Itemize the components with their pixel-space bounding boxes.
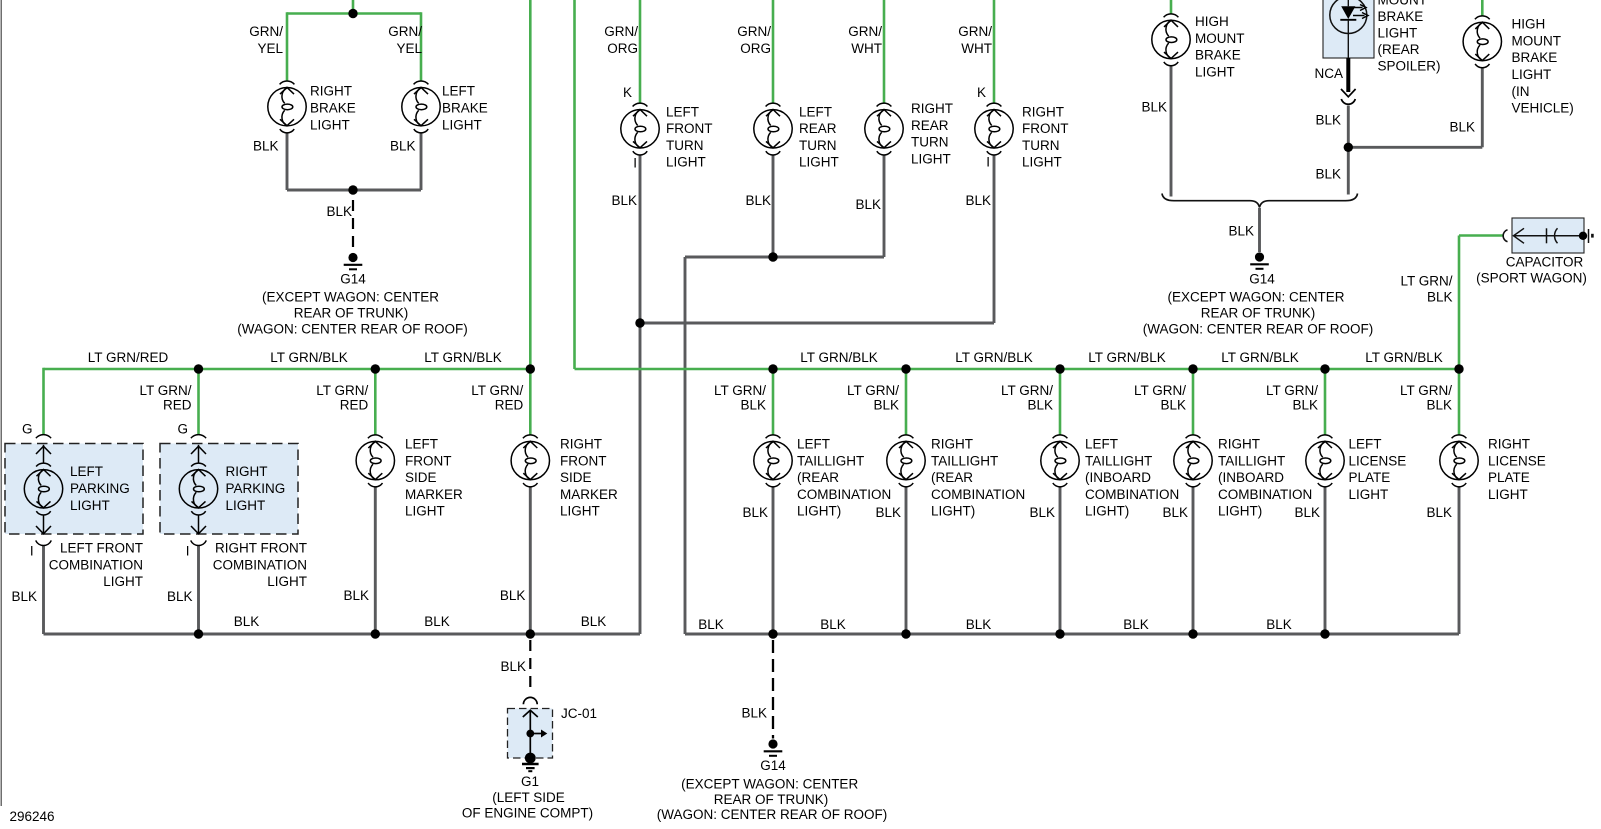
wire BLK left inboard taillight down: [1059, 486, 1062, 634]
svg-text:BLK: BLK: [1294, 505, 1320, 520]
wire BLK rear turns down to bus: [684, 257, 687, 634]
svg-text:LIGHT): LIGHT): [931, 504, 975, 519]
svg-text:LIGHT: LIGHT: [911, 151, 951, 166]
svg-text:G: G: [177, 422, 188, 437]
box JC-01 junction connector: [508, 709, 553, 759]
svg-text:TAILLIGHT: TAILLIGHT: [797, 453, 864, 468]
svg-text:RIGHT: RIGHT: [911, 101, 953, 116]
svg-text:FRONT: FRONT: [560, 453, 607, 468]
svg-text:(EXCEPT WAGON: CENTER: (EXCEPT WAGON: CENTER: [1167, 290, 1344, 305]
svg-text:LIGHT: LIGHT: [1022, 155, 1062, 170]
svg-text:296246: 296246: [10, 809, 55, 824]
LED symbol triangle: [1341, 6, 1355, 19]
svg-text:JC-01: JC-01: [561, 706, 597, 721]
svg-text:SIDE: SIDE: [560, 470, 592, 485]
svg-text:BRAKE: BRAKE: [442, 101, 488, 116]
svg-text:MARKER: MARKER: [405, 487, 463, 502]
wire GRN/ORG left front turn: [639, 0, 642, 103]
svg-text:BRAKE: BRAKE: [1512, 50, 1558, 65]
wire GRN/YEL feed stub: [352, 0, 355, 14]
svg-text:TAILLIGHT: TAILLIGHT: [931, 453, 998, 468]
svg-text:REAR: REAR: [911, 118, 949, 133]
LED circle HIGH MOUNT BRAKE LIGHT (REAR SPOILER): [1330, 0, 1367, 34]
node bus junction left taillight: [768, 364, 777, 373]
node ground bus right inboard: [1188, 629, 1197, 638]
svg-text:CAPACITOR: CAPACITOR: [1506, 255, 1584, 270]
svg-text:BLK: BLK: [820, 617, 846, 632]
node bus junction right marker: [526, 364, 535, 373]
bulb RIGHT TAILLIGHT (REAR COMBINATION LIGHT): [887, 435, 925, 487]
svg-text:LEFT: LEFT: [1085, 437, 1118, 452]
node JC-01 tap: [526, 730, 534, 738]
wire BLK right front turn light down: [993, 155, 996, 323]
LED light arrows: [1352, 5, 1368, 19]
wire LT GRN/BLK capacitor riser: [1458, 236, 1461, 370]
svg-text:BLK: BLK: [234, 614, 260, 629]
wire GRN high mount brake light: [1170, 0, 1173, 14]
wire NCA thick lead: [1346, 58, 1350, 92]
connector cup NCA: [1341, 99, 1355, 104]
svg-text:YEL: YEL: [396, 41, 422, 56]
wire GRN/YEL horizontal: [287, 12, 421, 15]
svg-text:LIGHT): LIGHT): [1085, 504, 1129, 519]
svg-text:LEFT: LEFT: [1349, 437, 1382, 452]
svg-text:LICENSE: LICENSE: [1488, 453, 1546, 468]
box CAPACITOR (SPORT WAGON): [1512, 218, 1584, 253]
svg-text:LIGHT: LIGHT: [1488, 487, 1528, 502]
wire BLK left rear turn light down: [772, 155, 775, 257]
svg-text:(INBOARD: (INBOARD: [1085, 470, 1151, 485]
svg-text:LT GRN/BLK: LT GRN/BLK: [955, 350, 1033, 365]
svg-text:BLK: BLK: [343, 588, 369, 603]
svg-text:MOUNT: MOUNT: [1512, 33, 1562, 48]
svg-text:LIGHT: LIGHT: [442, 117, 482, 132]
wire BLK brake lights join horizontal: [287, 189, 421, 192]
svg-text:BRAKE: BRAKE: [1195, 48, 1241, 63]
svg-text:LIGHT): LIGHT): [797, 504, 841, 519]
svg-text:BRAKE: BRAKE: [1378, 9, 1424, 24]
svg-text:LIGHT: LIGHT: [799, 155, 839, 170]
node bus junction right parking: [194, 364, 203, 373]
svg-text:RIGHT: RIGHT: [1488, 437, 1530, 452]
connector cup capacitor: [1503, 230, 1507, 242]
JC-01 tap arrow: [534, 733, 542, 735]
svg-text:LEFT: LEFT: [70, 464, 103, 479]
svg-text:(SPORT WAGON): (SPORT WAGON): [1476, 271, 1587, 286]
svg-text:LIGHT: LIGHT: [1195, 64, 1235, 79]
wire GRN/YEL right brake light: [286, 12, 289, 81]
wire BLK left brake light down: [420, 133, 423, 190]
node bus junction left license: [1320, 364, 1329, 373]
svg-text:BLK: BLK: [1315, 167, 1341, 182]
svg-text:LT GRN/: LT GRN/: [316, 383, 368, 398]
connector terminals right parking light: [191, 435, 207, 546]
svg-text:LIGHT: LIGHT: [405, 504, 445, 519]
svg-text:BLK: BLK: [1160, 398, 1186, 413]
svg-text:MOUNT: MOUNT: [1378, 0, 1428, 7]
svg-text:G: G: [22, 422, 33, 437]
svg-text:BLK: BLK: [875, 505, 901, 520]
svg-text:BLK: BLK: [855, 197, 881, 212]
svg-text:I: I: [633, 155, 637, 170]
wire BLK rear spoiler light down to junction: [1347, 106, 1350, 195]
svg-text:PLATE: PLATE: [1349, 470, 1391, 485]
svg-text:BLK: BLK: [741, 705, 767, 720]
svg-text:LICENSE: LICENSE: [1349, 453, 1407, 468]
bulb HIGH MOUNT BRAKE LIGHT (IN VEHICLE): [1463, 16, 1501, 68]
node ground bus left marker: [371, 629, 380, 638]
svg-text:K: K: [977, 85, 986, 100]
svg-text:RIGHT: RIGHT: [931, 437, 973, 452]
svg-text:REAR OF TRUNK): REAR OF TRUNK): [294, 306, 409, 321]
svg-text:LT GRN/: LT GRN/: [139, 383, 191, 398]
wire BLK left front side marker down: [374, 486, 377, 634]
svg-text:G14: G14: [760, 758, 786, 773]
wire BLK right rear turn light down: [883, 155, 886, 257]
wire BLK in-vehicle horizontal to junction: [1348, 146, 1482, 149]
node ground bus left inboard: [1055, 629, 1064, 638]
svg-text:BLK: BLK: [965, 193, 991, 208]
svg-text:BLK: BLK: [253, 139, 279, 154]
svg-text:VEHICLE): VEHICLE): [1512, 101, 1574, 116]
svg-text:LEFT: LEFT: [405, 437, 438, 452]
wire BLK left license plate light down: [1324, 486, 1327, 634]
svg-text:BLK: BLK: [698, 617, 724, 632]
svg-text:BLK: BLK: [1266, 617, 1292, 632]
svg-text:RED: RED: [340, 398, 369, 413]
bulb RIGHT LICENSE PLATE LIGHT: [1440, 435, 1478, 487]
svg-text:BLK: BLK: [1292, 398, 1318, 413]
svg-text:LT GRN/BLK: LT GRN/BLK: [1221, 350, 1299, 365]
wire LT GRN/BLK left taillight drop: [772, 369, 775, 435]
svg-text:HIGH: HIGH: [1512, 17, 1546, 32]
wire BLK high mount brake light down to brace: [1170, 65, 1173, 196]
svg-text:LT GRN/: LT GRN/: [1400, 383, 1452, 398]
svg-text:LIGHT: LIGHT: [267, 574, 307, 589]
box RIGHT PARKING LIGHT assembly: [160, 444, 298, 535]
svg-text:BLK: BLK: [424, 614, 450, 629]
wire BLK right taillight down: [905, 486, 908, 634]
svg-text:LIGHT: LIGHT: [226, 498, 266, 513]
svg-text:(REAR: (REAR: [931, 470, 973, 485]
node ground bus right taillight: [901, 629, 910, 638]
wire LT GRN/RED right parking drop: [197, 369, 200, 435]
wire LT GRN/BLK capacitor horizontal: [1459, 234, 1504, 237]
svg-text:TAILLIGHT: TAILLIGHT: [1218, 453, 1285, 468]
bulb RIGHT TAILLIGHT (INBOARD COMBINATION LIGHT): [1174, 435, 1212, 487]
node ground bus right marker: [526, 629, 535, 638]
svg-text:BLK: BLK: [873, 398, 899, 413]
box HIGH MOUNT BRAKE LIGHT (REAR SPOILER): [1323, 0, 1374, 58]
svg-text:TURN: TURN: [911, 135, 949, 150]
connector terminals left parking light: [36, 435, 52, 546]
svg-text:COMBINATION: COMBINATION: [213, 557, 307, 572]
svg-text:BLK: BLK: [1426, 505, 1452, 520]
svg-text:LT GRN/BLK: LT GRN/BLK: [800, 350, 878, 365]
svg-text:TURN: TURN: [666, 138, 704, 153]
svg-text:ORG: ORG: [740, 41, 771, 56]
wire BLK left front turn light down to bus: [639, 155, 642, 634]
svg-text:MOUNT: MOUNT: [1195, 31, 1245, 46]
svg-text:BLK: BLK: [1426, 398, 1452, 413]
wire BLK below brace to ground G14: [1258, 208, 1261, 252]
svg-text:FRONT: FRONT: [405, 453, 452, 468]
wire BLK left taillight down: [772, 486, 775, 634]
svg-text:BLK: BLK: [740, 398, 766, 413]
svg-text:BLK: BLK: [1449, 120, 1475, 135]
wire LT GRN/RED left parking drop: [42, 368, 45, 435]
node high mount junction: [1344, 143, 1353, 152]
svg-text:REAR OF TRUNK): REAR OF TRUNK): [714, 792, 829, 807]
node capacitor terminal: [1579, 232, 1587, 240]
bulb RIGHT PARKING LIGHT: [179, 463, 217, 515]
wire BLK dashed to G14 bottom: [772, 640, 774, 739]
svg-text:LT GRN/: LT GRN/: [714, 383, 766, 398]
wire GRN/ORG left rear turn: [772, 0, 775, 103]
svg-text:(INBOARD: (INBOARD: [1218, 470, 1284, 485]
wire BLK right front turn horizontal to junction: [640, 322, 994, 325]
svg-text:BLK: BLK: [500, 588, 526, 603]
svg-text:RIGHT: RIGHT: [310, 84, 352, 99]
ground G14 left: [344, 253, 363, 269]
connector cup JC-01 top: [523, 697, 537, 704]
bulb RIGHT FRONT SIDE MARKER LIGHT: [511, 435, 549, 487]
svg-text:RIGHT: RIGHT: [1218, 437, 1260, 452]
node ground bus left taillight: [768, 629, 777, 638]
bulb LEFT TAILLIGHT (INBOARD COMBINATION LIGHT): [1041, 435, 1079, 487]
svg-text:RIGHT FRONT: RIGHT FRONT: [215, 541, 307, 556]
svg-text:BLK: BLK: [1027, 398, 1053, 413]
svg-text:RIGHT: RIGHT: [226, 464, 268, 479]
ground G14 right: [1250, 252, 1269, 268]
page left border: [0, 0, 2, 806]
svg-text:LIGHT: LIGHT: [666, 155, 706, 170]
svg-text:LT GRN/: LT GRN/: [1001, 383, 1053, 398]
svg-text:LIGHT): LIGHT): [1218, 504, 1262, 519]
svg-text:BLK: BLK: [742, 505, 768, 520]
svg-text:TURN: TURN: [1022, 138, 1060, 153]
node ground bus right parking: [194, 629, 203, 638]
wire LT GRN/BLK left inboard drop: [1059, 369, 1062, 435]
svg-text:SPOILER): SPOILER): [1378, 59, 1441, 74]
ground G14 bottom: [764, 739, 783, 755]
bulb HIGH MOUNT BRAKE LIGHT: [1152, 14, 1190, 66]
node ground bus left license: [1320, 629, 1329, 638]
svg-text:FRONT: FRONT: [1022, 121, 1069, 136]
wire BLK left parking light down: [42, 545, 45, 634]
wire BLK right front side marker down: [529, 486, 532, 634]
svg-text:BLK: BLK: [581, 614, 607, 629]
LED cathode bar: [1340, 19, 1356, 21]
svg-text:HIGH: HIGH: [1195, 14, 1229, 29]
node bus junction left inboard: [1055, 364, 1064, 373]
svg-text:BLK: BLK: [1162, 505, 1188, 520]
svg-text:MARKER: MARKER: [560, 487, 618, 502]
svg-text:LEFT: LEFT: [797, 437, 830, 452]
wire LT GRN/BLK right license drop: [1458, 369, 1461, 435]
node rear turns junction: [768, 252, 777, 261]
svg-text:(REAR: (REAR: [1378, 42, 1420, 57]
svg-text:BLK: BLK: [745, 193, 771, 208]
node bus junction left marker: [371, 364, 380, 373]
svg-text:BRAKE: BRAKE: [310, 101, 356, 116]
wire LT GRN/RED right marker drop: [529, 369, 532, 435]
svg-text:BLK: BLK: [167, 589, 193, 604]
svg-text:G14: G14: [1249, 272, 1275, 287]
svg-text:LIGHT: LIGHT: [70, 498, 110, 513]
svg-text:WHT: WHT: [961, 41, 992, 56]
svg-text:(WAGON: CENTER REAR OF ROOF): (WAGON: CENTER REAR OF ROOF): [657, 807, 888, 822]
node bus junction right taillight: [901, 364, 910, 373]
svg-text:LIGHT: LIGHT: [310, 117, 350, 132]
svg-text:LT GRN/: LT GRN/: [1134, 383, 1186, 398]
svg-text:(EXCEPT WAGON: CENTER: (EXCEPT WAGON: CENTER: [681, 776, 858, 791]
svg-text:LEFT: LEFT: [799, 104, 832, 119]
wire BLK left ground bus: [44, 633, 641, 636]
svg-text:PLATE: PLATE: [1488, 470, 1530, 485]
svg-text:LT GRN/: LT GRN/: [1400, 274, 1452, 289]
svg-text:I: I: [986, 155, 990, 170]
svg-text:GRN/: GRN/: [848, 24, 882, 39]
svg-text:RIGHT: RIGHT: [560, 437, 602, 452]
svg-text:REAR OF TRUNK): REAR OF TRUNK): [1201, 306, 1316, 321]
svg-text:REAR: REAR: [799, 121, 837, 136]
svg-text:COMBINATION: COMBINATION: [49, 557, 143, 572]
bulb LEFT REAR TURN LIGHT: [754, 103, 792, 155]
svg-text:LIGHT: LIGHT: [1378, 26, 1418, 41]
svg-text:LT GRN/: LT GRN/: [847, 383, 899, 398]
svg-text:LIGHT: LIGHT: [1512, 67, 1552, 82]
connector arrow NCA: [1341, 89, 1356, 97]
svg-text:GRN/: GRN/: [249, 24, 283, 39]
svg-text:LEFT: LEFT: [666, 104, 699, 119]
svg-text:PARKING: PARKING: [70, 481, 130, 496]
svg-text:BLK: BLK: [11, 589, 37, 604]
svg-text:(EXCEPT WAGON: CENTER: (EXCEPT WAGON: CENTER: [262, 290, 439, 305]
node brake ground junction: [348, 185, 357, 194]
node bus junction right inboard: [1188, 364, 1197, 373]
svg-text:LIGHT: LIGHT: [1349, 487, 1389, 502]
svg-text:LT GRN/BLK: LT GRN/BLK: [270, 350, 348, 365]
svg-text:LT GRN/: LT GRN/: [1266, 383, 1318, 398]
svg-text:COMBINATION: COMBINATION: [931, 487, 1025, 502]
bulb LEFT FRONT TURN LIGHT: [621, 103, 659, 155]
svg-text:GRN/: GRN/: [958, 24, 992, 39]
ground G1: [522, 753, 539, 772]
wire LT GRN/RED left marker drop: [374, 369, 377, 435]
wire BLK right license plate light down: [1458, 486, 1461, 634]
svg-text:LT GRN/RED: LT GRN/RED: [88, 350, 169, 365]
wire BLK right inboard taillight down: [1192, 486, 1195, 634]
svg-text:BLK: BLK: [1427, 290, 1453, 305]
svg-text:COMBINATION: COMBINATION: [1085, 487, 1179, 502]
brace joining high mount brake light grounds: [1162, 194, 1358, 208]
wire LT GRN/BLK right inboard drop: [1192, 369, 1195, 435]
wire LT GRN/BLK right taillight drop: [905, 369, 908, 435]
svg-text:SIDE: SIDE: [405, 470, 437, 485]
svg-text:BLK: BLK: [1029, 505, 1055, 520]
bulb LEFT TAILLIGHT (REAR COMBINATION LIGHT): [754, 435, 792, 487]
svg-text:LEFT FRONT: LEFT FRONT: [60, 541, 143, 556]
svg-text:FRONT: FRONT: [666, 121, 713, 136]
box LEFT PARKING LIGHT assembly: [5, 444, 143, 535]
svg-text:BLK: BLK: [1315, 113, 1341, 128]
wire LT GRN bus left segment: [44, 368, 531, 371]
bulb RIGHT BRAKE LIGHT: [268, 81, 306, 133]
svg-text:(WAGON: CENTER REAR OF ROOF): (WAGON: CENTER REAR OF ROOF): [237, 322, 468, 337]
wire GRN/YEL left brake light: [420, 12, 423, 81]
svg-text:TAILLIGHT: TAILLIGHT: [1085, 453, 1152, 468]
wire LT GRN/BLK feed left bus: [529, 0, 532, 369]
wire GRN/WHT right rear turn: [883, 0, 886, 103]
svg-text:RED: RED: [495, 398, 524, 413]
wire BLK right brake light down: [286, 133, 289, 190]
wire GRN in-vehicle high mount light: [1481, 0, 1484, 16]
wire LT GRN/BLK right bus: [575, 368, 1460, 371]
svg-text:(WAGON: CENTER REAR OF ROOF): (WAGON: CENTER REAR OF ROOF): [1143, 322, 1374, 337]
bulb LEFT BRAKE LIGHT: [402, 81, 440, 133]
svg-text:BLK: BLK: [966, 617, 992, 632]
svg-text:BLK: BLK: [611, 193, 637, 208]
svg-text:LEFT: LEFT: [442, 84, 475, 99]
svg-text:G14: G14: [340, 272, 366, 287]
node bus junction capacitor: [1454, 364, 1463, 373]
wire BLK dashed to JC-01: [529, 640, 531, 694]
svg-text:LIGHT: LIGHT: [103, 574, 143, 589]
svg-text:LT GRN/BLK: LT GRN/BLK: [1088, 350, 1166, 365]
wire BLK right ground bus: [685, 633, 1459, 636]
wire GRN/WHT right front turn: [993, 0, 996, 103]
svg-text:BLK: BLK: [1123, 617, 1149, 632]
wire BLK rear turns horizontal: [685, 256, 884, 259]
LED anode lead: [1347, 0, 1349, 6]
svg-text:LT GRN/BLK: LT GRN/BLK: [424, 350, 502, 365]
svg-text:TURN: TURN: [799, 138, 837, 153]
svg-text:G1: G1: [521, 774, 539, 789]
bulb LEFT PARKING LIGHT: [24, 463, 62, 515]
svg-text:BLK: BLK: [326, 204, 352, 219]
svg-text:BLK: BLK: [390, 139, 416, 154]
wire BLK in-vehicle light down: [1481, 67, 1484, 147]
bulb RIGHT REAR TURN LIGHT: [865, 103, 903, 155]
svg-text:I: I: [30, 543, 34, 558]
wire LT GRN/BLK left license drop: [1324, 369, 1327, 435]
wire BLK right parking light down: [197, 545, 200, 634]
bulb RIGHT FRONT TURN LIGHT: [975, 103, 1013, 155]
svg-text:NCA: NCA: [1314, 66, 1343, 81]
svg-text:WHT: WHT: [851, 41, 882, 56]
wire LT GRN/BLK feed right bus: [573, 0, 576, 369]
svg-text:LT GRN/BLK: LT GRN/BLK: [1365, 350, 1443, 365]
svg-text:COMBINATION: COMBINATION: [797, 487, 891, 502]
svg-text:GRN/: GRN/: [388, 24, 422, 39]
svg-text:RED: RED: [163, 398, 192, 413]
svg-text:LIGHT: LIGHT: [560, 504, 600, 519]
svg-text:LT GRN/: LT GRN/: [471, 383, 523, 398]
node front turns junction: [635, 318, 644, 327]
svg-text:BLK: BLK: [1228, 224, 1254, 239]
bulb LEFT LICENSE PLATE LIGHT: [1306, 435, 1344, 487]
svg-text:PARKING: PARKING: [226, 481, 286, 496]
svg-text:(LEFT SIDE: (LEFT SIDE: [492, 790, 565, 805]
svg-text:RIGHT: RIGHT: [1022, 104, 1064, 119]
wire BLK dashed to G14 left: [352, 200, 354, 252]
JC-01 internal bus: [529, 711, 531, 759]
svg-text:BLK: BLK: [500, 659, 526, 674]
svg-text:K: K: [623, 85, 632, 100]
svg-text:YEL: YEL: [257, 41, 283, 56]
svg-text:GRN/: GRN/: [604, 24, 638, 39]
